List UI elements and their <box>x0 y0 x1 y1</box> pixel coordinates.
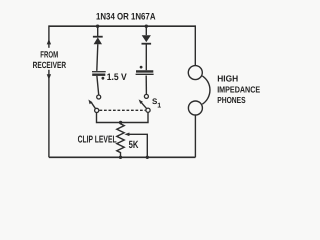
switch S1a top contact <box>97 95 101 99</box>
arrow down (into circuit) <box>47 74 51 79</box>
wire left input upper <box>48 25 50 47</box>
switch gang dashed link <box>100 109 146 111</box>
wire left input lower <box>48 70 50 158</box>
wire D2 to battery BT2 <box>145 44 147 70</box>
switch S1b blade <box>139 99 147 108</box>
phones earpiece bottom <box>188 101 202 115</box>
resistor R1 5K zigzag <box>117 123 124 158</box>
svg-text:RECEIVER: RECEIVER <box>33 60 67 70</box>
svg-text:1.5 V: 1.5 V <box>107 72 128 83</box>
wire D1 to battery BT1 <box>97 44 98 71</box>
pot wiper arrow <box>124 133 147 158</box>
phones headband arc <box>202 76 210 104</box>
wire BT1 to switch contact <box>97 76 99 95</box>
node junction pot bottom <box>119 156 122 159</box>
node junction diode D1 branch at top rail <box>96 25 99 28</box>
svg-text:HIGH: HIGH <box>217 73 238 83</box>
svg-text:1: 1 <box>157 102 161 109</box>
wire top rail to D1 <box>97 26 99 36</box>
switch S1b top contact <box>144 94 148 98</box>
wire top rail to phones <box>194 25 196 65</box>
node junction diode D2 branch at top rail <box>145 25 148 28</box>
svg-text:CLIP LEVEL: CLIP LEVEL <box>78 134 117 145</box>
svg-text:PHONES: PHONES <box>217 95 246 105</box>
diode D2 1N67A (cathode down) <box>142 35 152 44</box>
switch S1a blade <box>88 100 95 109</box>
battery BT1 1.5V <box>92 72 106 80</box>
wire top rail to D2 <box>145 26 147 35</box>
wire BT2 to switch contact <box>145 76 147 95</box>
arrow up (to receiver) <box>47 39 51 44</box>
svg-text:5K: 5K <box>129 139 139 151</box>
battery BT2 <box>136 66 154 75</box>
phones earpiece top <box>188 66 202 80</box>
diode D1 1N34 (cathode up) <box>93 37 103 45</box>
wire phones to bottom rail <box>194 115 196 157</box>
wire bottom rail <box>49 156 196 158</box>
wire top rail <box>49 25 195 27</box>
node junction pot top <box>119 121 122 124</box>
svg-text:FROM: FROM <box>40 49 58 59</box>
wire switch commons connector <box>97 113 149 123</box>
svg-text:1N34 OR 1N67A: 1N34 OR 1N67A <box>96 12 156 23</box>
node junction wiper return <box>146 156 149 159</box>
svg-text:IMPEDANCE: IMPEDANCE <box>217 84 260 94</box>
switch S1a pivot contact <box>95 108 99 112</box>
switch S1b pivot contact <box>146 108 150 112</box>
